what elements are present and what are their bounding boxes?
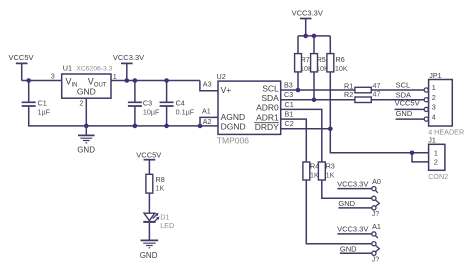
node label VCC3.3V / wire stub A1 jumper top <box>337 225 372 234</box>
svg-text:GND: GND <box>396 109 413 118</box>
svg-text:VCC5V: VCC5V <box>9 53 34 62</box>
node junction R6-DRDY <box>328 127 333 132</box>
svg-text:C3: C3 <box>284 90 293 99</box>
wire step down to U2 pin A3 <box>200 81 218 91</box>
svg-text:C4: C4 <box>176 99 185 108</box>
svg-text:R8: R8 <box>156 175 165 184</box>
svg-text:J?: J? <box>372 255 380 264</box>
wire SDA net <box>281 99 425 101</box>
power VCC5V (R8 top) <box>136 151 161 160</box>
wire U2 pin A1 <box>200 117 218 126</box>
svg-text:ADR1: ADR1 <box>256 112 279 122</box>
resistor R5 <box>311 36 329 100</box>
resistor R8 <box>146 160 165 214</box>
wire VCC5V to U1 pin 3 <box>22 80 62 82</box>
svg-text:JP1: JP1 <box>429 71 441 80</box>
resistor R4 <box>303 162 319 180</box>
resistor R3 <box>318 162 334 180</box>
ground GND under D1 <box>140 240 158 260</box>
svg-text:2: 2 <box>79 99 83 108</box>
op-amp U1 regulator XC6206-3.3 <box>62 63 113 98</box>
svg-text:DGND: DGND <box>221 121 246 131</box>
wire ground rail <box>28 125 218 127</box>
resistor R6 <box>327 36 348 129</box>
svg-text:GND: GND <box>338 199 355 208</box>
svg-text:GND: GND <box>77 87 96 97</box>
svg-text:VCC3.3V: VCC3.3V <box>292 9 323 18</box>
wire DRDY net to J1 <box>281 129 429 162</box>
wire SCL net <box>281 89 425 91</box>
node label GND / wire stub A1 jumper bottom <box>340 244 372 253</box>
svg-text:0.1µF: 0.1µF <box>176 108 195 117</box>
svg-text:3: 3 <box>51 71 55 80</box>
node junction C3 top <box>133 78 138 83</box>
svg-text:A2: A2 <box>203 117 212 126</box>
capacitor C1 <box>22 81 51 126</box>
node junction C4 top <box>164 78 169 83</box>
svg-text:1K: 1K <box>156 184 165 193</box>
svg-text:DRDY: DRDY <box>255 122 279 132</box>
node junction C3 bottom <box>133 124 138 129</box>
node junction VCC3.3V rail <box>303 34 308 39</box>
svg-text:GND: GND <box>340 244 357 253</box>
svg-text:R5: R5 <box>317 55 326 64</box>
svg-text:TMP006: TMP006 <box>217 135 249 145</box>
svg-text:VCC5V: VCC5V <box>395 99 420 108</box>
svg-text:C1: C1 <box>285 100 294 109</box>
LED D1 <box>143 212 174 230</box>
node junction U1 pin2 ground <box>84 124 89 129</box>
svg-text:J?: J? <box>372 209 380 218</box>
svg-text:B1: B1 <box>285 110 294 119</box>
svg-text:2: 2 <box>434 158 438 167</box>
svg-text:XC6206-3.3: XC6206-3.3 <box>76 65 112 72</box>
node junction J1 tie <box>410 151 415 156</box>
resistor R1 <box>344 81 381 93</box>
capacitor C4 <box>160 81 195 126</box>
svg-text:GND: GND <box>77 145 95 154</box>
svg-text:D1: D1 <box>160 212 169 221</box>
IC U2 TMP006 <box>217 72 281 145</box>
svg-text:V+: V+ <box>221 85 232 95</box>
jumper J? (A0) <box>372 177 381 218</box>
svg-text:A1: A1 <box>372 222 381 231</box>
node label GND / wire stub JP1 pin4 <box>396 109 425 119</box>
jumper J? (A1) <box>372 222 381 263</box>
ground GND under U1 <box>77 126 95 154</box>
svg-text:1: 1 <box>434 148 438 157</box>
svg-text:2: 2 <box>432 93 436 102</box>
svg-text:SCL: SCL <box>262 83 279 93</box>
svg-text:4: 4 <box>432 112 436 121</box>
node junction C4 bottom <box>164 124 169 129</box>
connector J1 CON2 <box>428 136 448 181</box>
power VCC3.3V (above U1 output) <box>113 53 144 81</box>
wire ADR1 net to R4 <box>281 119 372 244</box>
svg-text:R2: R2 <box>344 90 353 99</box>
svg-text:3: 3 <box>432 103 436 112</box>
svg-text:1K: 1K <box>310 170 319 179</box>
svg-text:47: 47 <box>373 81 381 90</box>
svg-text:U2: U2 <box>217 72 226 81</box>
svg-text:1µF: 1µF <box>38 108 51 117</box>
svg-text:VCC5V: VCC5V <box>136 151 161 160</box>
svg-text:10K: 10K <box>335 64 348 73</box>
svg-text:R3: R3 <box>326 162 335 171</box>
svg-text:47: 47 <box>373 90 381 99</box>
svg-text:SCL: SCL <box>396 81 411 90</box>
capacitor C3 <box>128 81 160 126</box>
node label VCC5V / wire stub JP1 pin3 <box>395 99 425 110</box>
svg-text:GND: GND <box>140 251 158 260</box>
svg-text:AGND: AGND <box>221 112 246 122</box>
connector JP1 <box>424 71 464 137</box>
wire D1 to ground <box>148 223 150 241</box>
svg-text:SDA: SDA <box>261 93 279 103</box>
svg-text:LED: LED <box>160 221 174 230</box>
svg-text:R7: R7 <box>301 55 310 64</box>
node junction C1 tap <box>26 78 31 83</box>
wire U1 pin 2 down <box>85 98 87 126</box>
svg-text:R6: R6 <box>336 55 345 64</box>
svg-text:1K: 1K <box>326 170 335 179</box>
wire ADR0 net to R3 <box>281 109 372 198</box>
svg-text:B3: B3 <box>284 80 293 89</box>
node junction R5 top <box>312 34 317 39</box>
svg-text:C3: C3 <box>143 99 152 108</box>
node junction A1/A2 <box>198 124 203 129</box>
svg-text:C1: C1 <box>38 99 47 108</box>
node junction VCC3.3V <box>125 78 130 83</box>
node label VCC3.3V / wire stub A0 jumper top <box>337 179 372 188</box>
svg-text:10µF: 10µF <box>143 108 160 117</box>
svg-text:ADR0: ADR0 <box>256 103 279 113</box>
power VCC5V (top-left) <box>9 53 34 80</box>
wire U1 pin 1 rail <box>111 80 200 82</box>
svg-text:J1: J1 <box>428 136 436 145</box>
svg-text:1: 1 <box>113 72 117 81</box>
svg-text:A1: A1 <box>202 106 211 115</box>
resistor R7 <box>295 36 313 90</box>
svg-text:1: 1 <box>432 83 436 92</box>
node junction R5-SDA <box>312 97 317 102</box>
node junction R7-SCL <box>296 88 301 93</box>
svg-text:VCC3.3V: VCC3.3V <box>337 225 368 234</box>
svg-text:A3: A3 <box>203 80 212 89</box>
svg-text:VCC3.3V: VCC3.3V <box>113 53 144 62</box>
svg-text:CON2: CON2 <box>428 172 448 181</box>
resistor R2 <box>344 90 381 103</box>
node label GND / wire stub A0 jumper bottom <box>338 199 371 208</box>
svg-text:U1: U1 <box>63 63 72 72</box>
wire pull-up rail <box>298 35 330 37</box>
power VCC3.3V (top right) <box>292 9 323 36</box>
svg-text:R1: R1 <box>344 81 353 90</box>
svg-text:VCC3.3V: VCC3.3V <box>337 179 368 188</box>
svg-text:C2: C2 <box>285 119 294 128</box>
svg-text:A0: A0 <box>372 177 381 186</box>
